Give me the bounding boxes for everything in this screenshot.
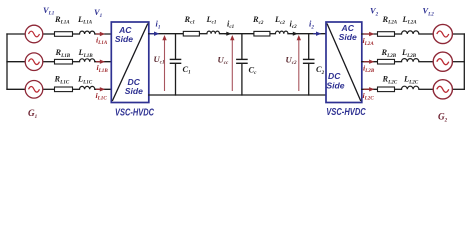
wire L_c1 to R_c2 (220, 33, 254, 35)
converter U2 VSC-HVDC box (326, 22, 362, 103)
wire bus to source B (7, 61, 25, 63)
wire R_L2B to L_L2B (395, 61, 402, 63)
svg-text:VSC-HVDC: VSC-HVDC (326, 107, 366, 118)
wire L_L2C to source C (419, 88, 433, 90)
wire R_L1C to L_L1C (73, 88, 80, 90)
wire source C to right bus (452, 88, 464, 90)
wire R_c1 to L_c1 (199, 33, 207, 35)
current arrow i_L2A (364, 32, 375, 36)
AC source G1 phase A (25, 25, 43, 43)
wire L_L1A to converter 1 (95, 33, 112, 35)
capacitor C2 (303, 59, 315, 63)
wire bus to source C (7, 88, 25, 90)
voltage arrow U_c1 (162, 35, 166, 91)
inductor L_L2C (402, 86, 419, 89)
resistor R_L1C (55, 87, 73, 92)
wire converter2 to R_L2C (362, 88, 378, 90)
wire Cc top lead (241, 34, 243, 59)
resistor R_L1B (55, 59, 73, 64)
svg-text:DC: DC (328, 71, 341, 81)
wire source A to R_L1A (43, 33, 55, 35)
resistor R_L2B (378, 59, 395, 64)
inductor L_L2A (402, 31, 419, 34)
inductor L_L1B (80, 59, 95, 62)
voltage arrow U_cc (230, 35, 234, 91)
svg-text:Side: Side (125, 86, 143, 96)
wire C2 top lead (308, 34, 310, 59)
AC source G2 phase B (433, 52, 452, 71)
wire right bus vertical G2 (463, 34, 465, 89)
inductor L_L1C (80, 86, 95, 89)
resistor R_c1 (183, 31, 199, 36)
inductor L_c2 (275, 31, 288, 34)
wire R_L2C to L_L2C (395, 88, 402, 90)
current arrow i_2 (313, 32, 322, 36)
resistor R_L2C (378, 87, 395, 92)
current arrow i_L1C (96, 87, 105, 91)
capacitor Cc (236, 59, 248, 63)
inductor L_L2B (402, 59, 419, 62)
wire converter2 to R_L2B (362, 61, 378, 63)
wire source B to right bus (452, 61, 464, 63)
wire source A to right bus (452, 33, 464, 35)
wire source B to R_L1B (43, 61, 55, 63)
resistor R_L2A (378, 32, 395, 37)
current arrow i_L1A (96, 32, 105, 36)
current arrow i_L2C (364, 87, 375, 91)
wire C1 bottom lead (175, 64, 177, 95)
wire Cc bottom lead (241, 64, 243, 95)
resistor R_c2 (254, 31, 270, 36)
wire L_c2 to converter2 (288, 33, 326, 35)
wire top DC bus converter1 to R_c1 (149, 33, 184, 35)
svg-text:Side: Side (339, 32, 357, 42)
wire bottom DC bus (149, 94, 326, 96)
inductor L_c1 (207, 31, 220, 34)
wire R_c2 to L_c2 (270, 33, 276, 35)
wire C2 bottom lead (308, 64, 310, 95)
AC source G1 phase C (25, 81, 43, 99)
wire L_L2B to source B (419, 61, 433, 63)
wire L_L2A to source A (419, 33, 433, 35)
wire R_L2A to L_L2A (395, 33, 402, 35)
wire source C to R_L1C (43, 88, 55, 90)
current arrow i_c2 (292, 32, 299, 36)
wire C1 top lead (175, 34, 177, 59)
AC source G1 phase B (25, 53, 43, 71)
wire R_L1B to L_L1B (73, 61, 80, 63)
wire R_L1A to L_L1A (73, 33, 80, 35)
current arrow i_L2B (364, 60, 375, 64)
resistor R_L1A (55, 32, 73, 37)
capacitor C1 (170, 59, 182, 63)
wire bus to source A (7, 33, 25, 35)
svg-text:Side: Side (115, 34, 133, 44)
wire L_L1B to converter 1 (95, 61, 112, 63)
inductor L_L1A (80, 31, 95, 34)
AC source G2 phase C (433, 80, 452, 99)
svg-text:Side: Side (326, 81, 344, 91)
current arrow i_c1 (225, 32, 232, 36)
AC source G2 phase A (433, 24, 452, 43)
converter U1 VSC-HVDC box (111, 22, 149, 103)
wire L_L1C to converter 1 (95, 88, 112, 90)
wire left bus vertical G1 (6, 34, 8, 89)
current arrow i_1 (150, 32, 160, 36)
voltage arrow U_c2 (297, 35, 301, 91)
svg-text:VSC-HVDC: VSC-HVDC (115, 108, 155, 119)
wire converter2 to R_L2A (362, 33, 378, 35)
current arrow i_L1B (96, 60, 105, 64)
